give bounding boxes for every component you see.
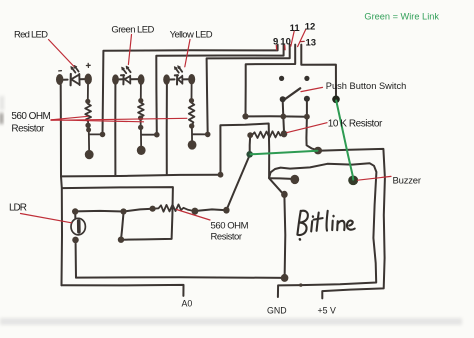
- leader: pin 11 tick: [291, 31, 295, 47]
- wire: bus up-and-over to ground junction: [220, 124, 269, 178]
- resistor R5 560 ohm (LDR divider): [155, 204, 195, 211]
- node: R2 corner: [138, 125, 143, 130]
- wire: junction diagonal down to vertical: [269, 178, 284, 194]
- photo artifact: bottom gray streak: [0, 318, 462, 325]
- node: red LED right pad: [85, 74, 92, 85]
- node: R3 top: [189, 98, 194, 103]
- wire: yellow LED pin wire to pin 11: [207, 45, 290, 135]
- wire: switch right pin down to +5V node: [306, 101, 318, 151]
- node: red stub terminal: [85, 150, 94, 159]
- node: yellow pin wire joint: [205, 132, 211, 138]
- node: green LED left pad: [112, 74, 119, 84]
- svg-text:13: 13: [306, 38, 317, 49]
- node: R3 bottom: [189, 123, 194, 128]
- node: GND junction: [281, 274, 289, 282]
- svg-text:9: 9: [273, 37, 278, 48]
- node: LDR box tap bottom: [118, 237, 124, 243]
- leader: LDR: [21, 214, 72, 223]
- green wire links: [251, 101, 354, 180]
- leader: Green LED: [128, 35, 131, 65]
- photo artifact: left edge smudge: [0, 96, 4, 110]
- svg-text:12: 12: [305, 21, 316, 32]
- node: LDR top: [72, 208, 78, 214]
- wire: ground run (junction, wavy top line, right side down, to GND stub): [269, 163, 376, 297]
- node: wire-link right: [314, 147, 322, 155]
- wire: green LED pin wire to pin 10: [156, 45, 283, 135]
- svg-text:Push Button Switch: Push Button Switch: [326, 81, 407, 92]
- wire: +5V run (stub, bottom, right side up, top to node): [322, 149, 385, 299]
- node: switch rail left: [242, 113, 248, 119]
- node: GND line dot: [299, 283, 302, 286]
- node: 10K left end: [247, 132, 253, 138]
- leader: Red LED: [49, 40, 75, 67]
- leader: 560 OHM to R1: [51, 116, 88, 120]
- wire: 10K left end down to wire-link node: [249, 135, 252, 154]
- push button switch lever: [284, 88, 300, 100]
- leader: pin 9 tick: [275, 45, 277, 50]
- svg-text:Buzzer: Buzzer: [393, 176, 422, 187]
- switch rail wire: [246, 115, 307, 117]
- node: R1 bottom: [85, 123, 90, 128]
- wire: LDR box inner vertical tap: [121, 213, 124, 240]
- switch bottom-right contact: [304, 96, 310, 102]
- leader: 560 OHM to R3: [51, 118, 187, 120]
- leader: Yellow LED: [185, 40, 190, 67]
- node: R5 right: [192, 208, 199, 215]
- svg-text:LDR: LDR: [9, 203, 27, 214]
- wire: red LED pin wire to pin 9: [103, 45, 278, 135]
- LED polarity marks: [59, 70, 62, 72]
- svg-text:Yellow LED: Yellow LED: [170, 30, 213, 41]
- wire: yellow LED anode down to bus: [166, 84, 168, 175]
- node: yellow stub terminal: [188, 140, 197, 149]
- node: R5 left: [150, 206, 156, 212]
- node: buzzer wire top: [332, 96, 340, 104]
- wire link: pin 13 to buzzer: [336, 101, 353, 180]
- leader: 10 K Resistor: [287, 123, 327, 133]
- wire: diagonal up to wire-link node: [227, 156, 250, 210]
- wire: buzzer pin wire to pin 13: [301, 45, 336, 100]
- node: yellow LED right pad: [188, 74, 195, 85]
- switch top-left contact: [279, 76, 284, 81]
- svg-text:560 OHM: 560 OHM: [11, 111, 51, 122]
- handwritten Bitline: [297, 211, 354, 240]
- node: center pad: [290, 175, 299, 184]
- resistor R2 560 ohm (green LED): [138, 84, 157, 150]
- svg-text:Resistor: Resistor: [11, 124, 45, 135]
- leader: Push Button Switch: [301, 87, 323, 91]
- node: green stub terminal: [137, 146, 146, 155]
- wire: A0 branch: [62, 285, 184, 296]
- wire: center vertical down to GND node: [283, 196, 286, 278]
- svg-text:Red LED: Red LED: [14, 30, 48, 41]
- wire: green LED anode down to bus: [114, 84, 116, 175]
- node blobs (component lead pads): [56, 74, 358, 287]
- node: diagonal bottom joint: [223, 207, 229, 214]
- node: red LED left pad: [56, 74, 63, 85]
- node: green pin wire joint: [154, 132, 160, 138]
- node: LDR box tap top: [120, 208, 126, 214]
- wire: LDR node row inside box: [75, 209, 152, 212]
- svg-text:Green = Wire Link: Green = Wire Link: [364, 12, 439, 23]
- node: LDR bottom: [72, 237, 79, 244]
- svg-text:A0: A0: [182, 299, 193, 309]
- node: green LED right pad: [138, 74, 145, 85]
- LED D3 yellow: symbol: [170, 66, 189, 85]
- LDR component: [71, 213, 85, 235]
- svg-text:+5 V: +5 V: [318, 305, 336, 315]
- LED D2 green: symbol: [119, 66, 139, 84]
- buzzer terminal: [348, 176, 358, 186]
- wire link: 10K left to +5V node: [251, 151, 318, 155]
- svg-text:GND: GND: [267, 305, 287, 315]
- node: red pin wire joint: [100, 132, 106, 138]
- svg-text:10: 10: [280, 37, 291, 48]
- resistor R3 560 ohm (yellow LED): [189, 84, 208, 144]
- LED D1 red: symbol: [63, 65, 84, 85]
- handwriting: Bitline: [297, 211, 300, 235]
- svg-text:Green LED: Green LED: [111, 25, 154, 36]
- svg-text:Resistor: Resistor: [211, 232, 243, 243]
- wire: bottom LED bus: [61, 175, 221, 177]
- leader: pin 12 tick: [298, 29, 306, 46]
- wire: R5 to diagonal corner: [197, 209, 227, 211]
- node: R1 corner: [86, 127, 91, 132]
- switch top-right contact: [304, 76, 309, 81]
- LDR box top/right/bottom wire: [62, 187, 173, 240]
- wire: red LED anode down to bottom bus and on to A0 corner: [61, 85, 62, 286]
- node: R1 top: [85, 99, 90, 104]
- leader: pin 13 dash: [300, 40, 304, 42]
- node: switch rail mid: [280, 114, 286, 120]
- wire: junction to center pad blob: [269, 177, 292, 180]
- node: bus corner: [218, 172, 224, 178]
- node: wire-link left (green): [246, 151, 253, 158]
- svg-text:11: 11: [290, 23, 301, 34]
- node: switch rail right: [304, 114, 310, 120]
- switch bottom-left contact: [280, 96, 286, 102]
- wire: LDR bottom lead down: [75, 244, 77, 278]
- resistor R1 560 ohm (red LED): [85, 85, 102, 155]
- leader: pin 10 tick: [284, 45, 286, 50]
- node: yellow LED left pad: [163, 74, 170, 84]
- resistor R4 10K: [252, 131, 283, 138]
- wire: switch pin wire to pin 12: [246, 45, 296, 117]
- node: diagonal joint: [281, 191, 288, 198]
- node: R2 bottom: [138, 115, 143, 120]
- leader: 560 OHM (LDR): [177, 210, 211, 221]
- svg-text:10 K Resistor: 10 K Resistor: [328, 118, 383, 129]
- leader: 560 OHM to R2: [51, 120, 144, 122]
- leader: Buzzer: [358, 176, 392, 180]
- wire: LDR row to GND node: [76, 276, 285, 279]
- node: 10K right end: [281, 130, 288, 137]
- wire: switch left pin down to 10K right end: [283, 101, 284, 132]
- svg-text:560 OHM: 560 OHM: [211, 221, 249, 232]
- red annotation leader lines: [21, 29, 392, 223]
- node: R2 top: [138, 98, 143, 103]
